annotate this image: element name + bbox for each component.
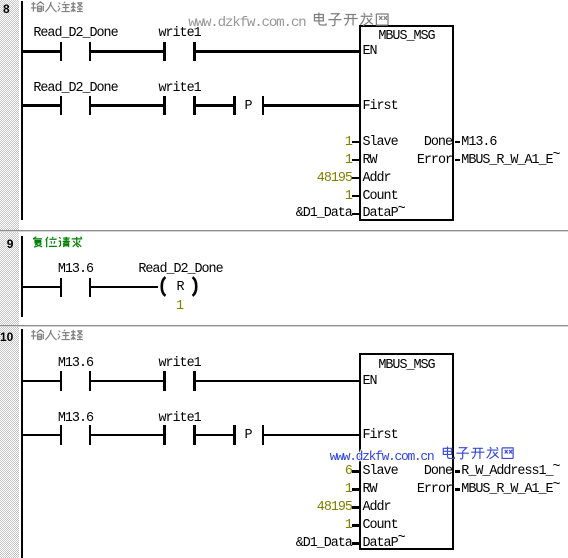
pin Done (network 10) <box>424 466 452 478</box>
network 9 comment 复位请求 <box>31 236 83 249</box>
reset coil operand count 1 <box>176 301 183 313</box>
pin Error (network 10) <box>417 484 452 496</box>
left power rail network 10 <box>21 329 23 558</box>
wire M13.6 to write1 (rung 1) <box>91 380 163 383</box>
contact Read_D2_Done left bar (rung 2) <box>60 96 62 116</box>
wire Read_D2_Done to write1 (rung 2) <box>91 104 163 107</box>
tick Slave <box>352 141 359 144</box>
wire Read_D2_Done to write1 (rung 1) <box>91 50 163 53</box>
pin Slave (network 10) <box>363 466 398 478</box>
pin EN <box>363 46 377 58</box>
pin Error <box>417 155 452 167</box>
wire P contact to First pin (rung 2) <box>264 434 360 437</box>
left power rail network 8 <box>21 1 23 220</box>
contact M13.6 label <box>58 264 93 276</box>
contact write1 label (rung 2) <box>159 83 201 95</box>
tick Done <box>455 141 461 144</box>
tick RW (network 10) <box>352 488 359 491</box>
pin Addr <box>363 173 391 185</box>
contact write1 right bar (rung 2) <box>193 425 195 445</box>
contact write1 left bar (rung 2) <box>163 96 165 116</box>
CJK glyph approximations <box>0 0 1 1</box>
coil Read_D2_Done label <box>138 264 222 276</box>
pin DataPtr (truncated) <box>363 208 405 220</box>
contact M13.6 label (rung 2) <box>58 413 93 425</box>
tick Error (network 10) <box>455 488 461 491</box>
contact M13.6 label (rung 1) <box>58 358 93 370</box>
contact write1 left bar (rung 2) <box>163 425 165 445</box>
network 9 number <box>7 238 14 250</box>
reset coil parentheses <box>156 276 202 297</box>
pin Done <box>424 137 452 149</box>
value &D1_Data for DataPtr (network 10) <box>296 538 352 550</box>
left power rail network 9 <box>21 236 23 317</box>
contact M13.6 right bar (rung 1) <box>89 371 91 391</box>
pin DataPtr (network 10, truncated) <box>363 538 405 550</box>
wire rail to contact M13.6 <box>21 286 60 289</box>
contact M13.6 right bar <box>89 278 91 298</box>
network 10 comment 输入注释 <box>31 329 83 342</box>
tick DataPtr <box>352 213 359 216</box>
pin Slave <box>363 137 398 149</box>
wire write1 to EN pin (rung 1) <box>196 380 360 383</box>
wire rail to contact M13.6 (rung 2) <box>21 434 60 437</box>
contact P right bar (rung 2) <box>262 96 264 116</box>
network 10 number <box>0 331 13 343</box>
contact Read_D2_Done label (rung 2) <box>33 83 117 95</box>
pin RW <box>363 155 377 167</box>
value 1 for RW <box>345 155 352 167</box>
contact Read_D2_Done right bar (rung 1) <box>89 42 91 62</box>
network 10 margin <box>0 327 19 558</box>
contact P left bar (rung 2) <box>233 425 235 445</box>
block title MBUS_MSG <box>378 31 434 43</box>
pin EN (network 10) <box>363 376 377 388</box>
tick Done (network 10) <box>455 470 461 473</box>
tick DataPtr (network 10) <box>352 542 359 545</box>
watermark gray www.dzkfw.com.cn <box>188 16 305 30</box>
watermark blue 电子开发网 <box>440 446 515 461</box>
value 6 for Slave (network 10) <box>345 466 352 478</box>
tick Error <box>455 159 461 162</box>
pin Count <box>363 191 398 203</box>
operand MBUS_R_W_A1_E~ on Error (network 10) <box>461 484 559 496</box>
reset coil letter R <box>177 282 184 294</box>
tick Slave (network 10) <box>352 470 359 473</box>
contact P letter (network 10) <box>245 430 252 442</box>
separator network 9/10 <box>0 325 568 326</box>
contact write1 right bar (rung 1) <box>193 371 195 391</box>
wire rail to contact Read_D2_Done (rung 1) <box>21 50 60 53</box>
pin First <box>363 101 398 113</box>
contact Read_D2_Done right bar (rung 2) <box>89 96 91 116</box>
wire write1 to P contact (rung 2) <box>196 104 233 107</box>
wire rail to contact M13.6 (rung 1) <box>21 380 60 383</box>
tick Addr <box>352 177 359 180</box>
wire write1 to P contact (rung 2) <box>196 434 233 437</box>
contact M13.6 left bar (rung 2) <box>60 425 62 445</box>
operand R_W_Address1_~ on Done (network 10) <box>461 466 559 478</box>
operand M13.6 on Done <box>461 137 496 149</box>
network 8 margin <box>0 0 19 230</box>
operand MBUS_R_W_A1_E~ on Error <box>461 155 559 167</box>
contact P left bar (rung 2) <box>233 96 235 116</box>
contact Read_D2_Done label (rung 1) <box>33 28 117 40</box>
contact write1 label (rung 1) <box>159 358 201 370</box>
value 1 for Count <box>345 191 352 203</box>
function block MBUS_MSG U8 box <box>359 25 455 221</box>
value 1 for RW (network 10) <box>345 484 352 496</box>
contact write1 left bar (rung 1) <box>163 371 165 391</box>
wire M13.6 to reset coil <box>91 286 158 289</box>
pin Count (network 10) <box>363 520 398 532</box>
function block MBUS_MSG U10 box <box>359 353 455 550</box>
wire write1 to EN pin (rung 1) <box>196 50 360 53</box>
block title MBUS_MSG (network 10) <box>378 360 434 372</box>
value 48195 for Addr (network 10) <box>317 502 352 514</box>
contact write1 right bar (rung 1) <box>193 42 195 62</box>
contact write1 label (rung 1) <box>159 28 201 40</box>
value 1 for Count (network 10) <box>345 520 352 532</box>
network 8 number <box>3 3 10 15</box>
value 1 for Slave <box>345 137 352 149</box>
value &D1_Data for DataPtr <box>296 208 352 220</box>
contact P right bar (rung 2) <box>262 425 264 445</box>
tick Count (network 10) <box>352 524 359 527</box>
network 8 comment 输入注释 <box>31 1 83 14</box>
separator network 8/9 <box>0 230 568 231</box>
value 48195 for Addr <box>317 173 352 185</box>
pin First (network 10) <box>363 430 398 442</box>
watermark gray 电子开发网 <box>311 12 390 28</box>
contact M13.6 left bar (rung 1) <box>60 371 62 391</box>
contact M13.6 left bar <box>60 278 62 298</box>
tick Count <box>352 195 359 198</box>
wire P contact to First pin (rung 2) <box>264 104 360 107</box>
wire M13.6 to write1 (rung 2) <box>91 434 163 437</box>
tick RW <box>352 159 359 162</box>
pin Addr (network 10) <box>363 502 391 514</box>
contact write1 right bar (rung 2) <box>193 96 195 116</box>
pin RW (network 10) <box>363 484 377 496</box>
wire rail to contact Read_D2_Done (rung 2) <box>21 104 60 107</box>
network 9 margin <box>0 232 19 325</box>
contact M13.6 right bar (rung 2) <box>89 425 91 445</box>
tick Addr (network 10) <box>352 506 359 509</box>
contact write1 left bar (rung 1) <box>163 42 165 62</box>
contact Read_D2_Done left bar (rung 1) <box>60 42 62 62</box>
contact P letter <box>245 101 252 113</box>
contact write1 label (rung 2) <box>159 413 201 425</box>
watermark blue www.dzkfw.com.cn <box>330 450 434 463</box>
